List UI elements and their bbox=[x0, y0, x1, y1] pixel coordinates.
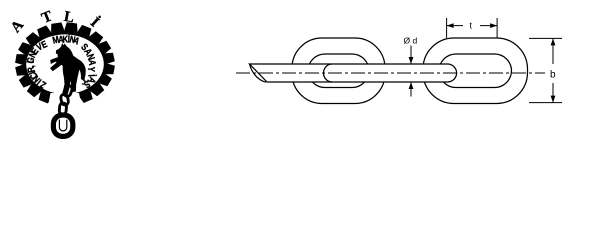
gear teeth bbox=[64, 22, 77, 32]
svg-text:Y: Y bbox=[86, 66, 97, 72]
chain link L1 (left oval link) bbox=[292, 38, 385, 104]
centerline bbox=[236, 72, 545, 74]
svg-text:A: A bbox=[8, 17, 27, 36]
svg-text:Ø d: Ø d bbox=[404, 36, 418, 46]
white text ring interior bbox=[26, 34, 104, 94]
dim t ticks bbox=[446, 18, 448, 38]
ring text bbox=[38, 79, 48, 91]
bottom gap for chain bbox=[42, 93, 89, 140]
needle bar with right cap bbox=[250, 64, 457, 82]
horse bbox=[51, 45, 85, 93]
dim b extension lines bbox=[529, 37, 562, 39]
big bottom link bbox=[53, 115, 72, 136]
svg-text:b: b bbox=[550, 69, 556, 80]
hanging chain small links bbox=[63, 85, 73, 97]
gear band bbox=[22, 30, 107, 98]
svg-text:İ: İ bbox=[87, 14, 103, 31]
dim d top arrow bbox=[410, 46, 412, 65]
dim t line + arrows bbox=[447, 25, 463, 27]
ATLI letters bbox=[8, 17, 27, 36]
svg-text:t: t bbox=[470, 21, 473, 31]
needle bevel face bbox=[250, 64, 267, 82]
dim b line bbox=[552, 38, 554, 64]
internal cap (left end of edge-on link) bbox=[324, 64, 333, 82]
chain link L2 (right oval link) bbox=[423, 38, 528, 104]
dim d bottom arrow bbox=[410, 82, 412, 97]
